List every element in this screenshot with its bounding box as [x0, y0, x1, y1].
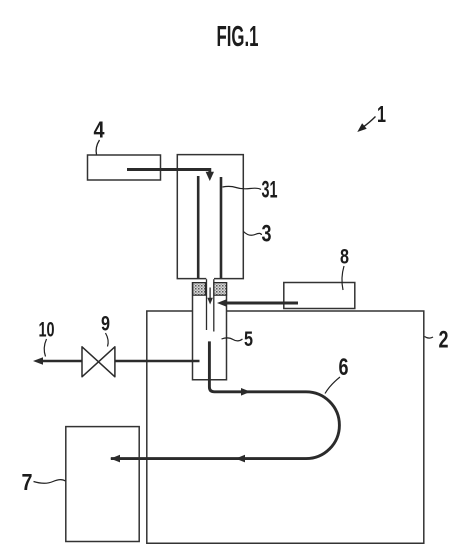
svg-text:4: 4: [94, 117, 105, 143]
svg-text:6: 6: [339, 354, 349, 381]
small downward flow arrow in box 5: [207, 288, 213, 305]
leader for label 31: [223, 186, 262, 189]
svg-text:2: 2: [439, 327, 449, 354]
tube wall left in box 3: [197, 176, 200, 279]
svg-text:FIG.1: FIG.1: [217, 21, 259, 53]
svg-text:7: 7: [22, 469, 33, 495]
svg-text:9: 9: [101, 313, 110, 336]
svg-text:1: 1: [377, 101, 386, 127]
leader arrow for label 1: [357, 117, 375, 133]
leader for label 6: [325, 377, 340, 394]
leader for label 4: [96, 140, 99, 155]
carrier gas arrow from box 8 into box 5: [217, 299, 298, 307]
ferrule right (stippled seal): [214, 283, 227, 296]
svg-text:8: 8: [340, 246, 349, 269]
tube wall right in box 3 (insert 31): [220, 177, 223, 279]
box 3 vaporizing chamber: [177, 155, 243, 279]
flow arrow right on column 6 upper run: [241, 388, 251, 396]
flow arrow into box 7 (end of column): [110, 455, 120, 463]
inner tube wall left: [206, 279, 208, 330]
leader for label 8: [342, 266, 344, 290]
leader for label 10: [44, 339, 46, 357]
inner tube wall right: [213, 279, 215, 331]
flow arrow left on column 6 lower run: [236, 455, 246, 463]
ferrule left (stippled seal): [193, 283, 206, 296]
box 2 column oven: [147, 311, 424, 543]
split vent line right segment (valve to box 5): [115, 360, 200, 363]
split vent line left segment with end arrowhead: [33, 357, 82, 365]
svg-text:5: 5: [244, 328, 253, 351]
thick sample-flow arrow from box 4 into box 3: [127, 170, 214, 182]
leader for label 7: [34, 480, 66, 484]
svg-text:10: 10: [39, 319, 55, 342]
valve 9: [82, 347, 115, 377]
svg-text:3: 3: [262, 221, 272, 248]
leader for label 2: [425, 337, 434, 339]
svg-text:31: 31: [262, 177, 278, 204]
box 8 carrier gas supply: [284, 283, 355, 309]
leader for label 9: [106, 333, 109, 347]
box 4 sample introduction unit: [88, 155, 161, 180]
box 7 detector: [66, 427, 139, 542]
leader for label 5: [222, 338, 243, 341]
leader for label 3: [244, 232, 262, 236]
column 6 tube path: [111, 341, 340, 458]
box 5 injector body: [193, 283, 227, 380]
